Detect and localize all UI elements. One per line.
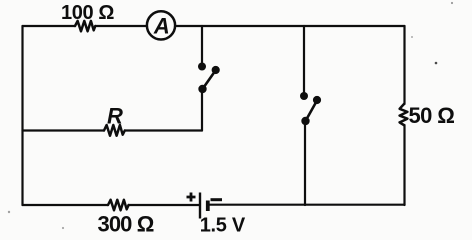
wire switch S2 branch upper vertical: [303, 26, 305, 96]
svg-text:R: R: [107, 104, 123, 129]
noise speck: [62, 227, 64, 229]
svg-text:100 Ω: 100 Ω: [61, 2, 114, 24]
wire R to switch branch corner: [125, 129, 202, 131]
wire ammeter to top-right corner: [177, 25, 405, 27]
wire battery to bottom-right corner: [209, 204, 405, 206]
wire right vertical upper: [403, 26, 405, 104]
wire left vertical: [21, 26, 23, 205]
wire switch S2 branch lower vertical: [304, 121, 306, 205]
wire switch S1 branch upper vertical: [201, 26, 203, 67]
wire top-left segment: [23, 25, 76, 27]
noise speck: [411, 36, 413, 38]
wire right vertical lower: [403, 125, 405, 205]
resistor 100 ohm zigzag: [75, 21, 95, 31]
switch S1 blade: [203, 71, 216, 90]
battery minus sign: [211, 198, 223, 201]
noise speck: [451, 2, 453, 4]
wire bottom-left segment: [23, 204, 109, 206]
wire middle horizontal left of R: [23, 129, 105, 131]
resistor 300 ohm zigzag: [108, 200, 129, 211]
switch S2 blade: [306, 101, 318, 122]
battery negative plate: [206, 201, 210, 212]
svg-text:1.5 V: 1.5 V: [200, 215, 246, 237]
switch S1 blade tip dot: [212, 66, 220, 74]
battery positive plate: [199, 193, 201, 219]
resistor R zigzag: [104, 125, 125, 136]
ammeter A body: [147, 11, 175, 39]
wire 300 ohm to battery: [129, 204, 199, 206]
switch S2 pivot dot: [301, 117, 309, 125]
svg-text:A: A: [153, 14, 170, 39]
switch S1 contact dot top: [198, 63, 206, 71]
wire resistor to ammeter: [95, 25, 146, 27]
switch S2 contact dot top: [300, 92, 308, 100]
resistor 50 ohm zigzag: [400, 104, 408, 125]
svg-text:300 Ω: 300 Ω: [98, 212, 154, 237]
switch S2 blade tip dot: [313, 96, 321, 104]
battery plus sign: [187, 193, 196, 202]
svg-text:50 Ω: 50 Ω: [409, 103, 455, 128]
noise speck: [435, 62, 438, 65]
noise speck: [8, 211, 10, 213]
switch S1 pivot dot: [198, 85, 206, 93]
wire switch S1 branch lower vertical: [201, 89, 203, 131]
